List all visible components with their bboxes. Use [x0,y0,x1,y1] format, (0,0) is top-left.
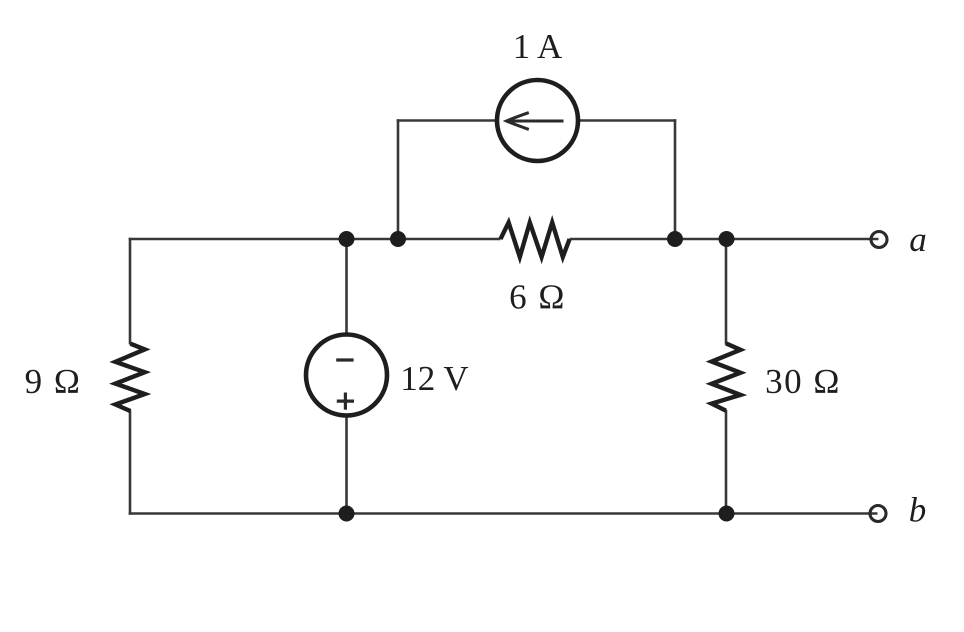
svg-text:1 A: 1 A [513,27,563,66]
wire: voltage source lower vertical [345,414,348,515]
current source I1 circle [497,80,578,161]
wire: top rail right segment (6-ohm to terminal a) [570,238,879,241]
wire: voltage source upper vertical [345,238,348,336]
svg-text:30 Ω: 30 Ω [765,362,841,401]
junction node at top rail x=675 [667,231,683,247]
wire: current source right lead vertical [674,119,677,240]
voltage source V1 circle [306,335,387,416]
wire: 30-ohm branch upper vertical [725,238,728,345]
wire: current source left lead vertical [397,119,400,240]
svg-text:b: b [909,491,927,530]
wire: current source left lead horizontal [397,119,498,122]
wire: current source right lead horizontal [577,119,676,122]
svg-text:12 V: 12 V [400,359,468,398]
svg-text:6 Ω: 6 Ω [509,278,566,317]
voltage source plus sign [337,393,354,410]
wire: left branch lower vertical [129,411,132,515]
resistor 6 ohm [501,223,570,258]
junction node at top rail x=398 [390,231,406,247]
wire: top rail left segment (node to 6-ohm) [129,238,501,241]
junction node at bottom rail x=727 [719,506,735,522]
current source arrow (pointing left) [507,113,564,130]
resistor 30 ohm [712,343,741,410]
junction node at top rail x=727 [719,231,735,247]
svg-text:a: a [909,220,927,259]
wire: left branch upper vertical [129,238,132,345]
resistor 9 ohm [115,344,144,411]
svg-text:9 Ω: 9 Ω [25,362,82,401]
wire: bottom rail (node b net) [129,512,878,515]
wire: 30-ohm branch lower vertical [725,410,728,515]
junction node at bottom rail x=346 [339,506,355,522]
junction node at top rail x=346 [339,231,355,247]
terminal a open circle [871,232,887,248]
terminal b open circle [870,506,886,522]
voltage source minus sign [336,358,353,361]
